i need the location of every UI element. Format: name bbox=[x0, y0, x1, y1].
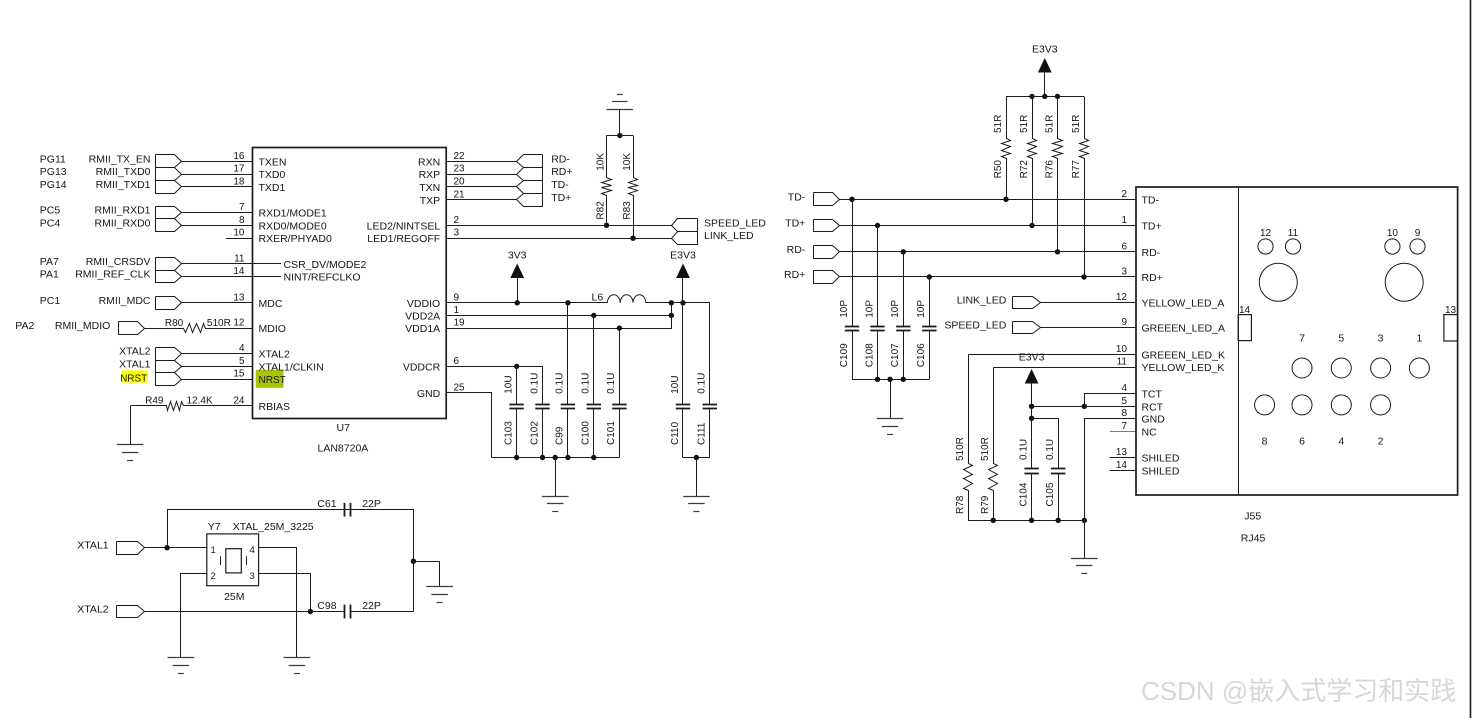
svg-text:3: 3 bbox=[1121, 267, 1127, 278]
svg-text:R83: R83 bbox=[622, 201, 633, 220]
port PC1 flag bbox=[156, 297, 182, 310]
wire stub SHILED pin14 bbox=[1110, 470, 1136, 472]
ground Y7 pin2 bbox=[180, 647, 182, 658]
ground RJ45 bank bbox=[1084, 520, 1086, 558]
wire VDDIO to E3V3 bbox=[646, 302, 710, 304]
pin name NRST highlight bbox=[256, 370, 284, 388]
port RD+ flag input bbox=[814, 271, 840, 284]
J55 shield tab 13 bbox=[1444, 315, 1458, 341]
svg-text:51R: 51R bbox=[993, 115, 1004, 133]
svg-text:CSDN @嵌入式学习和实践: CSDN @嵌入式学习和实践 bbox=[1141, 676, 1456, 706]
junctions cap bank rail bbox=[514, 455, 519, 460]
svg-text:RD-: RD- bbox=[787, 244, 806, 256]
svg-text:R49: R49 bbox=[145, 395, 164, 406]
svg-text:21: 21 bbox=[454, 189, 466, 200]
svg-text:TD+: TD+ bbox=[1142, 221, 1162, 233]
svg-text:XTAL1/CLKIN: XTAL1/CLKIN bbox=[259, 361, 324, 373]
svg-text:VDD2A: VDD2A bbox=[405, 310, 440, 322]
capacitor C108 10P bbox=[877, 226, 879, 327]
svg-text:510R: 510R bbox=[955, 437, 966, 461]
svg-text:C99: C99 bbox=[555, 426, 566, 445]
svg-text:RXP: RXP bbox=[419, 169, 441, 181]
port RD- RD+ TD- TD+ flags bbox=[517, 155, 543, 168]
wire rail R82 R83 top bbox=[607, 135, 634, 137]
op-amp U1 chip U7 LAN8720A body bbox=[253, 148, 447, 419]
svg-text:11: 11 bbox=[234, 253, 245, 264]
ground Y7 pin4 bbox=[296, 647, 298, 658]
svg-text:51R: 51R bbox=[1071, 115, 1082, 133]
junction C61 branch bbox=[164, 545, 169, 550]
wire C109-C106 rail bbox=[852, 379, 929, 381]
wire TD- to J55 bbox=[839, 199, 1136, 201]
wire C110 C111 rail bbox=[683, 457, 710, 459]
capacitor C100 0.1U bbox=[593, 315, 595, 404]
svg-text:10: 10 bbox=[233, 228, 245, 239]
svg-text:12: 12 bbox=[1260, 228, 1272, 239]
svg-text:XTAL1: XTAL1 bbox=[77, 540, 108, 552]
svg-text:XTAL_25M_3225: XTAL_25M_3225 bbox=[233, 521, 314, 533]
svg-text:C105: C105 bbox=[1045, 482, 1056, 506]
svg-text:GND: GND bbox=[1142, 413, 1166, 425]
svg-text:PA2: PA2 bbox=[15, 320, 34, 332]
svg-text:2: 2 bbox=[1378, 435, 1384, 447]
svg-text:13: 13 bbox=[233, 292, 245, 303]
port XTAL2 flag bottom bbox=[117, 606, 145, 618]
svg-text:RMII_TXD0: RMII_TXD0 bbox=[96, 166, 151, 178]
svg-text:0.1U: 0.1U bbox=[555, 373, 566, 394]
svg-text:10: 10 bbox=[1116, 344, 1128, 355]
capacitor C104 0.1U bbox=[1031, 406, 1033, 468]
wires CSR_DV NINT with inner stubs bbox=[181, 263, 281, 265]
capacitor C99 0.1U bbox=[567, 303, 569, 404]
port PA7 PA1 flags bbox=[156, 258, 182, 271]
wire VDD1A row and up bbox=[447, 303, 672, 329]
wire RCT pin5 bbox=[1032, 406, 1136, 408]
junction R83 bottom bbox=[630, 236, 635, 241]
svg-text:R50: R50 bbox=[993, 160, 1004, 179]
svg-text:3: 3 bbox=[1378, 333, 1384, 345]
svg-text:VDDCR: VDDCR bbox=[403, 361, 441, 373]
svg-text:1: 1 bbox=[211, 545, 216, 556]
port RD- flag input bbox=[814, 246, 840, 259]
capacitor C106 10P bbox=[929, 277, 931, 326]
junction rail stem bbox=[694, 455, 699, 460]
svg-text:12: 12 bbox=[1116, 292, 1128, 303]
svg-text:RXD1/MODE1: RXD1/MODE1 bbox=[259, 208, 327, 220]
svg-text:LAN8720A: LAN8720A bbox=[318, 443, 369, 455]
junction C101 top bbox=[617, 325, 622, 330]
svg-text:VDDIO: VDDIO bbox=[407, 298, 440, 310]
svg-text:E3V3: E3V3 bbox=[1032, 44, 1058, 56]
wire YELLOW_LED_K pin11 bbox=[994, 367, 1137, 369]
svg-text:13: 13 bbox=[1116, 447, 1128, 458]
wire Y7 pin4 to ground bbox=[259, 548, 297, 658]
svg-text:RXD0/MODE0: RXD0/MODE0 bbox=[259, 220, 327, 232]
J55 large mounting circles bbox=[1259, 263, 1297, 301]
svg-text:C100: C100 bbox=[581, 421, 592, 445]
svg-text:10P: 10P bbox=[890, 300, 901, 318]
svg-text:0.1U: 0.1U bbox=[529, 373, 540, 394]
svg-text:E3V3: E3V3 bbox=[670, 249, 696, 261]
svg-text:19: 19 bbox=[454, 318, 466, 329]
svg-text:14: 14 bbox=[1116, 460, 1128, 471]
svg-text:XTAL2: XTAL2 bbox=[119, 346, 150, 358]
wire LED1 LINK_LED bbox=[446, 238, 671, 240]
svg-text:1: 1 bbox=[454, 305, 460, 316]
svg-text:PC1: PC1 bbox=[40, 295, 61, 307]
capacitor C105 0.1U bbox=[1058, 468, 1060, 470]
wire Y7 pin2 to ground bbox=[181, 574, 207, 658]
junction C100 top bbox=[591, 313, 596, 318]
wire GREEEN_LED_K pin10 bbox=[969, 354, 1137, 356]
power symbol E3V3 mid bbox=[676, 264, 690, 279]
svg-text:XTAL1: XTAL1 bbox=[119, 358, 150, 370]
svg-text:1: 1 bbox=[1416, 333, 1422, 345]
svg-text:5: 5 bbox=[239, 356, 245, 367]
wire RJ45 gnd rail bbox=[968, 520, 1084, 522]
capacitor C98 22P in XTAL2 wire bbox=[145, 611, 345, 613]
wire LINK_LED to J55 bbox=[1040, 302, 1136, 304]
capacitor C103 10U bbox=[516, 366, 518, 404]
resistor R82 10K bbox=[602, 136, 612, 226]
svg-text:510R: 510R bbox=[207, 318, 231, 329]
power symbol E3V3 lower bbox=[1025, 369, 1039, 384]
capacitor C102 0.1U bbox=[542, 404, 544, 406]
svg-text:R79: R79 bbox=[980, 495, 991, 514]
svg-text:RMII_TX_EN: RMII_TX_EN bbox=[89, 153, 151, 165]
port SPEED_LED flag bbox=[1013, 322, 1041, 334]
svg-text:NINT/REFCLKO: NINT/REFCLKO bbox=[284, 272, 361, 284]
wires TXEN TXD0 TXD1 bbox=[181, 161, 252, 163]
svg-text:YELLOW_LED_A: YELLOW_LED_A bbox=[1142, 298, 1225, 310]
svg-text:SPEED_LED: SPEED_LED bbox=[704, 217, 766, 229]
svg-text:22P: 22P bbox=[362, 498, 381, 510]
svg-text:4: 4 bbox=[239, 343, 245, 354]
svg-text:18: 18 bbox=[233, 177, 245, 188]
connector J55 RJ45 body bbox=[1136, 187, 1458, 495]
svg-text:GND: GND bbox=[417, 388, 441, 400]
svg-text:51R: 51R bbox=[1044, 115, 1055, 133]
J55 shield tab 14 bbox=[1238, 315, 1251, 341]
svg-text:RBIAS: RBIAS bbox=[259, 401, 291, 413]
wire stub RXER pin10 bbox=[226, 238, 253, 240]
J55 LED windows small circles 12 11 10 9 bbox=[1258, 239, 1273, 254]
junction RCT E3V3 bbox=[1029, 404, 1034, 409]
svg-text:25M: 25M bbox=[224, 591, 244, 603]
svg-text:TXP: TXP bbox=[420, 195, 440, 207]
svg-text:RMII_MDIO: RMII_MDIO bbox=[55, 320, 110, 332]
wire Y7 pin3 down bbox=[259, 574, 311, 612]
svg-text:8: 8 bbox=[1121, 408, 1127, 419]
wire GND pin8 bbox=[1085, 419, 1137, 521]
svg-text:R78: R78 bbox=[955, 495, 966, 514]
svg-text:RMII_MDC: RMII_MDC bbox=[99, 295, 151, 307]
wire cap bank rail bbox=[491, 457, 619, 459]
svg-text:RCT: RCT bbox=[1142, 401, 1164, 413]
svg-text:PG11: PG11 bbox=[40, 153, 66, 165]
svg-text:8: 8 bbox=[239, 215, 245, 226]
junction VDD2A vertical bbox=[669, 313, 674, 318]
svg-text:YELLOW_LED_K: YELLOW_LED_K bbox=[1142, 362, 1225, 374]
svg-text:6: 6 bbox=[1121, 241, 1127, 252]
svg-text:R72: R72 bbox=[1019, 160, 1030, 179]
svg-text:PA1: PA1 bbox=[40, 269, 59, 281]
svg-text:C98: C98 bbox=[317, 600, 336, 612]
resistor R80 510R in MDIO wire bbox=[145, 324, 253, 333]
wire C61 branch up bbox=[168, 510, 345, 548]
wire SPEED_LED to J55 bbox=[1040, 327, 1136, 329]
svg-text:0.1U: 0.1U bbox=[1045, 439, 1056, 460]
svg-text:SHILED: SHILED bbox=[1142, 466, 1180, 478]
svg-text:C103: C103 bbox=[503, 421, 514, 445]
wire RD- to J55 bbox=[839, 251, 1136, 253]
svg-text:10K: 10K bbox=[622, 153, 633, 171]
resistor R78 510R bbox=[964, 355, 973, 521]
svg-text:NC: NC bbox=[1142, 426, 1158, 438]
svg-text:10: 10 bbox=[1387, 228, 1399, 239]
svg-text:14: 14 bbox=[1239, 305, 1251, 316]
svg-text:9: 9 bbox=[1121, 317, 1127, 328]
wire C105 branch bbox=[1032, 419, 1059, 469]
resistor R76 51R bbox=[1053, 97, 1063, 252]
svg-text:TD+: TD+ bbox=[785, 218, 805, 230]
svg-text:7: 7 bbox=[1299, 333, 1305, 345]
svg-text:PA7: PA7 bbox=[40, 256, 59, 268]
wire LED2 SPEED_LED bbox=[446, 225, 671, 227]
svg-text:6: 6 bbox=[1299, 435, 1305, 447]
wire GND pin25 bbox=[447, 393, 492, 458]
wire VDD2A row bbox=[446, 315, 671, 317]
svg-text:8: 8 bbox=[1262, 435, 1268, 447]
capacitor C109 10P bbox=[852, 199, 854, 326]
svg-text:XTAL2: XTAL2 bbox=[259, 349, 290, 361]
svg-text:PG14: PG14 bbox=[40, 179, 67, 191]
svg-text:SHILED: SHILED bbox=[1142, 452, 1180, 464]
svg-text:2: 2 bbox=[1121, 189, 1127, 200]
svg-text:RMII_TXD1: RMII_TXD1 bbox=[96, 179, 151, 191]
svg-text:RD+: RD+ bbox=[551, 166, 572, 178]
svg-text:14: 14 bbox=[233, 266, 245, 277]
resistor R72 51R bbox=[1028, 97, 1037, 226]
junction C99 top bbox=[565, 300, 570, 305]
svg-text:SPEED_LED: SPEED_LED bbox=[944, 320, 1006, 332]
capacitor C107 10P bbox=[903, 252, 905, 326]
svg-text:15: 15 bbox=[233, 369, 245, 380]
svg-text:RD-: RD- bbox=[1142, 247, 1161, 259]
port TD- flag input bbox=[814, 193, 840, 206]
svg-text:Y7: Y7 bbox=[208, 521, 221, 533]
svg-text:RD+: RD+ bbox=[784, 269, 805, 281]
svg-text:PC4: PC4 bbox=[40, 217, 61, 229]
J55 contact circles 7 5 3 1 bbox=[1292, 358, 1312, 378]
svg-text:10P: 10P bbox=[916, 300, 927, 318]
wire to ground branch bbox=[414, 561, 440, 563]
svg-text:C110: C110 bbox=[670, 421, 681, 445]
svg-text:C102: C102 bbox=[529, 421, 540, 445]
svg-text:RJ45: RJ45 bbox=[1241, 533, 1266, 545]
svg-text:LINK_LED: LINK_LED bbox=[704, 230, 754, 242]
svg-text:C109: C109 bbox=[839, 343, 850, 367]
svg-text:RD-: RD- bbox=[551, 153, 570, 165]
svg-text:J55: J55 bbox=[1244, 511, 1261, 523]
svg-text:4: 4 bbox=[250, 545, 255, 556]
svg-text:2: 2 bbox=[454, 215, 460, 226]
svg-text:6: 6 bbox=[454, 356, 460, 367]
svg-text:VDD1A: VDD1A bbox=[405, 323, 440, 335]
svg-text:7: 7 bbox=[239, 202, 245, 213]
svg-text:TCT: TCT bbox=[1142, 388, 1163, 400]
svg-text:MDIO: MDIO bbox=[259, 323, 286, 335]
wire stub SHILED pin13 bbox=[1110, 457, 1136, 459]
svg-text:CSR_DV/MODE2: CSR_DV/MODE2 bbox=[284, 259, 367, 271]
svg-text:51R: 51R bbox=[1019, 115, 1030, 133]
svg-text:RXN: RXN bbox=[418, 156, 440, 168]
svg-text:TD+: TD+ bbox=[551, 192, 571, 204]
svg-text:U7: U7 bbox=[337, 422, 351, 434]
resistor R77 51R bbox=[1080, 97, 1089, 277]
svg-text:2: 2 bbox=[211, 571, 216, 582]
wire MDC bbox=[181, 302, 252, 304]
port PG11 PG13 PG14 flags bbox=[156, 155, 182, 168]
svg-text:TD-: TD- bbox=[788, 191, 806, 203]
svg-text:RMII_RXD0: RMII_RXD0 bbox=[94, 217, 150, 229]
svg-text:C106: C106 bbox=[916, 343, 927, 367]
junction E3V3 stem C110 bbox=[680, 300, 685, 305]
capacitor C110 10U bbox=[682, 303, 684, 404]
svg-text:17: 17 bbox=[233, 164, 245, 175]
svg-text:510R: 510R bbox=[980, 437, 991, 461]
port LINK_LED flag bbox=[1013, 297, 1041, 309]
svg-text:5: 5 bbox=[1121, 396, 1127, 407]
resistor R50 51R bbox=[1002, 97, 1011, 200]
svg-text:TXEN: TXEN bbox=[259, 156, 287, 168]
svg-text:C61: C61 bbox=[317, 498, 336, 510]
ground crystal right bbox=[439, 561, 441, 586]
svg-text:C108: C108 bbox=[864, 343, 875, 367]
junction rails merge bbox=[669, 300, 674, 305]
svg-text:TXD0: TXD0 bbox=[259, 169, 286, 181]
port PC5 PC4 flags bbox=[156, 207, 182, 219]
svg-text:GREEEN_LED_A: GREEEN_LED_A bbox=[1142, 323, 1225, 335]
crystal Y7 body bbox=[207, 534, 259, 586]
wire XTAL1 to Y7 pin1 bbox=[145, 547, 207, 549]
ground at R49 bbox=[130, 406, 132, 445]
junction C105 branch bbox=[1029, 416, 1034, 421]
svg-text:TXN: TXN bbox=[419, 182, 440, 194]
ground C109-C106 bbox=[890, 379, 892, 419]
svg-text:4: 4 bbox=[1338, 435, 1344, 447]
wires RXD1 RXD0 bbox=[181, 212, 252, 214]
port XTAL1 flag bottom bbox=[117, 542, 145, 555]
svg-text:10U: 10U bbox=[670, 375, 681, 393]
svg-text:R80: R80 bbox=[165, 318, 184, 329]
inverted ground above R82 R83 bbox=[617, 94, 623, 96]
svg-text:LINK_LED: LINK_LED bbox=[957, 295, 1007, 307]
wire stub NC pin7 bbox=[1110, 431, 1136, 433]
svg-text:24: 24 bbox=[233, 395, 245, 406]
svg-text:RD+: RD+ bbox=[1142, 272, 1163, 284]
wires XTAL2 XTAL1 NRST bbox=[181, 353, 252, 355]
svg-text:LED2/NINTSEL: LED2/NINTSEL bbox=[367, 220, 441, 232]
svg-text:25: 25 bbox=[454, 382, 466, 393]
svg-text:0.1U: 0.1U bbox=[581, 373, 592, 394]
resistor R83 10K bbox=[629, 136, 638, 239]
ground cap bank bbox=[555, 458, 557, 497]
power symbol E3V3 top bbox=[1038, 58, 1052, 73]
port TD+ flag input bbox=[814, 220, 840, 232]
svg-text:11: 11 bbox=[1117, 357, 1128, 368]
port XTAL2 XTAL1 NRST flags bbox=[156, 348, 182, 361]
svg-text:23: 23 bbox=[454, 164, 466, 175]
wire VDDCR row bbox=[447, 367, 543, 405]
svg-text:RMII_CRSDV: RMII_CRSDV bbox=[86, 256, 151, 268]
svg-text:L6: L6 bbox=[592, 292, 604, 304]
svg-text:0.1U: 0.1U bbox=[1018, 439, 1029, 460]
svg-text:C107: C107 bbox=[890, 343, 901, 367]
junction 3V3 stem bbox=[515, 300, 520, 305]
svg-text:C111: C111 bbox=[697, 422, 708, 445]
resistor R49 12.4K on RBIAS bbox=[131, 402, 253, 411]
svg-text:GREEEN_LED_K: GREEEN_LED_K bbox=[1142, 350, 1225, 362]
wire RBIAS down bbox=[130, 406, 132, 445]
capacitor C101 0.1U bbox=[619, 328, 621, 404]
junction R82 bottom bbox=[604, 223, 609, 228]
junction TCT-RCT bbox=[1082, 404, 1087, 409]
wire TD+ to J55 bbox=[839, 225, 1136, 227]
svg-text:13: 13 bbox=[1445, 305, 1457, 316]
junction top rail bbox=[617, 133, 622, 138]
svg-text:LED1/REGOFF: LED1/REGOFF bbox=[367, 233, 440, 245]
svg-text:11: 11 bbox=[1288, 228, 1299, 239]
svg-text:TXD1: TXD1 bbox=[259, 182, 286, 194]
port SPEED_LED LINK_LED flags bbox=[672, 219, 698, 232]
svg-text:NRST: NRST bbox=[259, 375, 286, 386]
svg-text:C104: C104 bbox=[1018, 482, 1029, 506]
svg-text:R82: R82 bbox=[596, 201, 607, 220]
wire C61 right down bbox=[351, 510, 414, 612]
net label NRST highlighted bbox=[122, 370, 148, 382]
resistor R79 510R bbox=[989, 368, 998, 521]
wire RD+ to J55 bbox=[839, 276, 1136, 278]
svg-text:PG13: PG13 bbox=[40, 166, 67, 178]
svg-text:XTAL2: XTAL2 bbox=[77, 604, 108, 616]
svg-text:12.4K: 12.4K bbox=[187, 395, 213, 406]
svg-text:10K: 10K bbox=[596, 153, 607, 171]
svg-text:3V3: 3V3 bbox=[508, 249, 527, 261]
svg-text:10U: 10U bbox=[503, 375, 514, 393]
svg-text:10P: 10P bbox=[839, 300, 850, 318]
wires RXN RXP TXN TXP bbox=[446, 161, 517, 163]
power symbol 3V3 bbox=[510, 264, 524, 279]
svg-text:PC5: PC5 bbox=[40, 205, 61, 217]
svg-text:22: 22 bbox=[454, 151, 466, 162]
svg-text:TD-: TD- bbox=[551, 179, 569, 191]
wire R50-R77 top rail bbox=[1006, 96, 1084, 98]
junction ground branch bbox=[411, 559, 416, 564]
svg-text:NRST: NRST bbox=[120, 373, 147, 384]
ground C110 C111 bbox=[696, 458, 698, 497]
svg-text:3: 3 bbox=[250, 571, 255, 582]
svg-text:20: 20 bbox=[454, 177, 466, 188]
svg-text:7: 7 bbox=[1121, 421, 1127, 432]
svg-text:16: 16 bbox=[233, 151, 245, 162]
svg-text:9: 9 bbox=[1415, 228, 1421, 239]
capacitor C111 0.1U bbox=[709, 303, 711, 405]
svg-text:0.1U: 0.1U bbox=[697, 373, 708, 394]
svg-text:3: 3 bbox=[454, 228, 460, 239]
svg-text:0.1U: 0.1U bbox=[606, 373, 617, 394]
svg-text:1: 1 bbox=[1121, 215, 1127, 226]
